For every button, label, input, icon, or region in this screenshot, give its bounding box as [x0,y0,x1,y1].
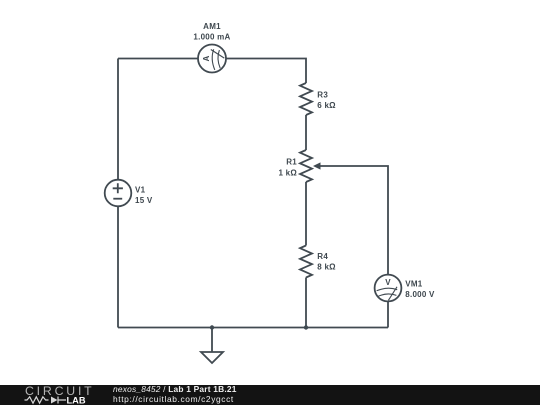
wire left vertical V1 bottom [117,206,119,327]
potentiometer R1 [300,150,321,182]
svg-text:V1: V1 [135,186,146,195]
svg-text:R1: R1 [286,157,297,166]
voltage source V1 [105,180,132,207]
label VM1 value 8.000 V [405,280,435,300]
junction node at ground [210,325,214,329]
wire wiper of R1 to VM1 top [321,166,389,275]
wire left vertical V1 top [117,59,119,180]
label R1 value 1 kOhm [278,157,297,177]
svg-text:8 kΩ: 8 kΩ [317,263,336,272]
svg-text:V: V [385,278,391,287]
label R3 value 6 kOhm [317,90,336,110]
label AM1 value 1.000 mA [193,22,230,42]
svg-text:15 V: 15 V [135,196,153,205]
wire top-left horizontal from V1 branch to AM1 [118,58,198,60]
svg-text:VM1: VM1 [405,280,423,289]
resistor R3 [300,83,312,115]
svg-text:R3: R3 [317,90,328,99]
svg-text:A: A [202,55,211,61]
wire R1 bottom to R4 top [305,182,307,246]
svg-text:6 kΩ: 6 kΩ [317,101,336,110]
svg-text:1.000 mA: 1.000 mA [193,33,230,42]
svg-text:AM1: AM1 [203,22,221,31]
label R4 value 8 kOhm [317,252,336,271]
CircuitLab logo [0,385,110,405]
svg-text:8.000 V: 8.000 V [405,290,435,299]
resistor R4 [300,246,312,278]
ground [201,328,223,364]
wire bottom rail [118,327,388,329]
svg-text:1 kΩ: 1 kΩ [278,169,297,178]
attribution text [113,385,237,404]
junction node R4/bottom rail [304,325,308,329]
label V1 value 15 V [135,186,153,205]
ammeter AM1 [198,45,226,73]
wire R3 bottom to R1 top [305,115,307,150]
wire AM1 to top-right corner and down to R3 [226,59,306,84]
wire R4 bottom to bottom rail [305,278,307,328]
wire right vertical VM1 bottom to rail [387,301,389,327]
voltmeter VM1 [375,275,402,302]
svg-text:LAB: LAB [67,395,86,405]
svg-text:R4: R4 [317,252,328,261]
